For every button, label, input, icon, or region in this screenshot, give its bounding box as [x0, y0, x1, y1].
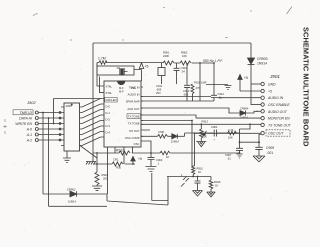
svg-text:D-1: D-1	[106, 111, 111, 115]
wire filter verticals	[200, 63, 214, 101]
svg-text:3K: 3K	[204, 135, 207, 139]
capacitor C909	[255, 135, 262, 157]
svg-text:XTAL: XTAL	[106, 85, 113, 89]
pin A-2	[35, 139, 61, 142]
wire bottom rail 2	[49, 205, 108, 207]
svg-text:R910 1MF: R910 1MF	[194, 81, 207, 85]
svg-text:1K: 1K	[215, 184, 218, 188]
wire outer left	[92, 43, 94, 162]
wire fan D2	[82, 110, 101, 119]
diode CR902	[70, 191, 77, 197]
svg-text:.04: .04	[181, 70, 185, 74]
svg-text:C902: C902	[156, 158, 163, 162]
IC U902	[64, 103, 80, 151]
svg-text:R901: R901	[163, 51, 170, 55]
wire right drop	[250, 43, 252, 105]
wire U902 pin8 down	[80, 146, 97, 159]
component Z910	[158, 63, 165, 84]
svg-text:DATA EN: DATA EN	[106, 98, 117, 102]
resistor R906	[112, 162, 123, 166]
svg-text:AUDIO OUT: AUDIO OUT	[267, 110, 288, 114]
svg-text:+5: +5	[244, 76, 248, 80]
ground G11	[236, 154, 242, 158]
svg-text:CR904: CR904	[240, 107, 249, 111]
pin GND	[251, 82, 264, 85]
svg-text:C911: C911	[156, 84, 163, 88]
svg-text:R915: R915	[214, 180, 221, 184]
svg-text:M-F: M-F	[119, 90, 124, 94]
svg-text:.01: .01	[227, 157, 231, 161]
U901 right pin stubs	[141, 87, 150, 136]
svg-text:.005: .005	[183, 93, 189, 97]
resistor R914b	[160, 151, 240, 155]
registration mark	[3, 119, 7, 134]
svg-text:TONE IN: TONE IN	[129, 85, 140, 89]
svg-text:C910: C910	[181, 66, 188, 70]
svg-text:GND: GND	[268, 83, 276, 87]
svg-text:TX TONE: TX TONE	[128, 122, 140, 126]
pin A-1	[35, 133, 61, 136]
wire fan D0	[82, 99, 101, 108]
svg-text:DATA HI: DATA HI	[19, 117, 32, 121]
capacitor C912	[211, 95, 217, 101]
svg-text:1N914: 1N914	[257, 62, 267, 66]
svg-text:1K: 1K	[198, 170, 201, 174]
svg-text:OSC OUT: OSC OUT	[268, 132, 284, 136]
pin MONITOR EN	[261, 116, 264, 119]
wire vertical bus right	[240, 124, 260, 153]
svg-text:TX TONE OUT: TX TONE OUT	[268, 123, 292, 127]
resistor R901	[163, 61, 174, 65]
pin A-0	[35, 128, 61, 131]
wire fan D7	[82, 137, 101, 146]
resistor R905	[141, 135, 172, 139]
wire filter top	[97, 62, 214, 65]
svg-text:+5: +5	[145, 65, 149, 69]
svg-text:D-2: D-2	[106, 117, 111, 121]
svg-text:TMB LD: TMB LD	[20, 111, 33, 115]
ground G2	[63, 158, 71, 163]
resistor R913a	[191, 84, 194, 101]
svg-text:25V: 25V	[156, 91, 161, 95]
U901 TX TONE box	[127, 114, 141, 119]
wire R904 drop	[96, 153, 98, 172]
svg-text:OSC: OSC	[134, 142, 140, 146]
wire R912 row	[93, 152, 160, 154]
node +5 bottom	[131, 157, 135, 165]
wire U902 gnd	[66, 151, 68, 158]
U901 top labels	[119, 86, 136, 94]
wire xtal top	[96, 63, 98, 67]
wire fan D4	[82, 121, 101, 130]
pin WRITE EN	[35, 122, 61, 125]
svg-text:R904: R904	[102, 173, 109, 177]
ground G3	[86, 162, 96, 165]
svg-text:CR1: CR1	[113, 158, 119, 162]
svg-text:CR902: CR902	[67, 188, 76, 192]
ground below C909	[253, 156, 265, 162]
connector J902	[26, 100, 36, 105]
svg-text:1N914: 1N914	[68, 200, 76, 204]
U902 left pins	[59, 107, 64, 146]
svg-text:+5: +5	[268, 90, 272, 94]
capacitor C904	[214, 130, 227, 137]
svg-text:J902: J902	[26, 100, 36, 105]
pin +5	[240, 89, 264, 92]
wire monitor en	[141, 115, 261, 118]
svg-text:47K: 47K	[196, 86, 201, 90]
svg-text:M-F: M-F	[119, 86, 124, 90]
wire chip to midvert	[141, 120, 192, 122]
smudge	[33, 8, 252, 41]
svg-text:AUDIO IN: AUDIO IN	[128, 92, 140, 96]
label R910	[194, 81, 207, 85]
resistor R903 1.7M	[99, 61, 107, 65]
wire fan D3	[82, 115, 101, 124]
wire gnd stub	[206, 84, 228, 86]
svg-text:1.7M: 1.7M	[98, 57, 106, 61]
svg-text:C904: C904	[211, 125, 218, 129]
svg-text:MONITOR EN: MONITOR EN	[268, 117, 290, 121]
svg-text:WRITE EN: WRITE EN	[15, 122, 32, 126]
connector J901	[269, 74, 280, 79]
svg-text:.001: .001	[267, 151, 274, 155]
pin TMB LD	[13, 110, 61, 115]
svg-text:C912: C912	[218, 92, 225, 96]
wire xtal2	[100, 77, 101, 93]
svg-text:5p: 5p	[219, 96, 222, 100]
svg-text:263: 263	[103, 177, 108, 181]
resistor R912	[119, 151, 130, 155]
svg-text:10K: 10K	[228, 136, 233, 140]
pin TX TONE OUT	[141, 123, 264, 126]
resistor R915	[209, 177, 213, 193]
pin AUDIO IN	[217, 96, 264, 99]
IC U901	[104, 81, 141, 147]
svg-text:4.7K: 4.7K	[228, 128, 234, 132]
svg-text:CR903: CR903	[257, 57, 268, 61]
svg-text:1N914: 1N914	[171, 139, 179, 143]
U901 right pin labels	[125, 85, 140, 146]
svg-text:220K: 220K	[163, 54, 169, 58]
U901 DATA EN box	[105, 97, 118, 102]
capacitor C908	[148, 153, 155, 167]
wire audio out	[141, 108, 240, 113]
svg-text:C907: C907	[225, 153, 232, 157]
capacitor C907	[236, 148, 243, 150]
U901 bottom pin stubs	[108, 147, 133, 194]
svg-text:J901: J901	[269, 74, 280, 79]
pin OSC OUT	[195, 130, 290, 136]
wire filter bus	[141, 100, 214, 102]
svg-text:R36: R36	[116, 166, 121, 170]
svg-text:+5: +5	[138, 157, 142, 161]
svg-text:R910: R910	[197, 167, 204, 171]
svg-text:SPKR AMP: SPKR AMP	[126, 100, 140, 104]
svg-text:4099: 4099	[66, 104, 72, 108]
svg-text:AUDIO IN: AUDIO IN	[267, 96, 284, 100]
svg-text:A-1: A-1	[26, 133, 32, 137]
svg-text:C913: C913	[183, 89, 190, 93]
svg-text:R902: R902	[181, 51, 188, 55]
ground G9	[196, 142, 206, 147]
corner tick	[287, 7, 293, 15]
pin OSC ENABLE	[251, 103, 264, 106]
wire xtal1	[97, 63, 101, 86]
resistor R904	[95, 172, 99, 186]
U901 left pin stubs	[101, 86, 105, 137]
capacitor C905	[181, 177, 189, 187]
capacitor C906	[195, 177, 201, 191]
svg-text:TX TONE: TX TONE	[128, 115, 140, 119]
diode CR903	[248, 58, 255, 65]
potentiometer R913	[200, 124, 207, 141]
capacitor C913	[184, 63, 190, 101]
resistor R910	[192, 166, 195, 175]
svg-text:OSC COMP: OSC COMP	[125, 136, 140, 140]
svg-text:1K: 1K	[166, 155, 169, 159]
wire R906 row	[93, 163, 135, 165]
label CR903	[257, 57, 268, 66]
svg-text:XTAL: XTAL	[106, 91, 113, 95]
node +5 right	[238, 75, 242, 92]
U902 right pins	[80, 107, 83, 146]
wire cluster bus	[167, 176, 211, 178]
svg-text:D-0: D-0	[106, 104, 111, 108]
resistor R914	[228, 131, 240, 135]
wire chip row to C908	[141, 141, 151, 153]
svg-text:10K: 10K	[182, 54, 187, 58]
pin DATA HI	[35, 117, 61, 120]
diode CR904	[240, 111, 258, 116]
svg-text:A-0: A-0	[26, 128, 32, 132]
wire cluster left drop	[152, 173, 168, 201]
wire bottom rail 1b	[77, 177, 169, 206]
svg-text:C909: C909	[266, 146, 274, 150]
svg-text:D-3: D-3	[106, 124, 111, 128]
svg-text:R912: R912	[116, 149, 124, 153]
crystal Y901	[97, 66, 134, 75]
wire fan D1	[82, 104, 101, 113]
svg-text:A-2: A-2	[26, 139, 32, 143]
diode CR905	[172, 133, 214, 139]
svg-text:AUD OUT: AUD OUT	[127, 107, 139, 111]
ground G7	[207, 192, 215, 197]
svg-text:470K: 470K	[158, 130, 164, 134]
wire bottom rail 1	[43, 193, 70, 195]
wire bus B	[48, 118, 50, 206]
wire mid verticals	[192, 121, 195, 177]
pin AUDIO OUT	[256, 110, 264, 113]
svg-text:.005: .005	[156, 88, 162, 92]
wire fan D5	[82, 126, 101, 135]
capacitor C910	[174, 63, 180, 84]
node +5 chip	[134, 63, 144, 81]
label LPF	[203, 59, 223, 63]
ground G1	[225, 86, 232, 90]
resistor R902	[180, 61, 191, 65]
ground G4	[92, 186, 102, 191]
svg-text:OSC ENABLE: OSC ENABLE	[268, 103, 290, 107]
svg-text:D-4: D-4	[106, 131, 111, 135]
wire bus A	[42, 113, 44, 195]
wire audio in long	[141, 96, 211, 98]
svg-text:SCHEMATIC MULTITONE BOARD: SCHEMATIC MULTITONE BOARD	[302, 27, 311, 147]
ground G6	[193, 191, 203, 197]
wire fan D6	[82, 132, 101, 141]
svg-text:MT OUT: MT OUT	[129, 129, 140, 133]
svg-text:R913: R913	[202, 120, 209, 124]
wire data en	[54, 99, 101, 124]
svg-text:1N914: 1N914	[240, 116, 248, 120]
wire outer top	[93, 42, 251, 44]
svg-text:500 Hz L.P.F.: 500 Hz L.P.F.	[203, 59, 223, 63]
ground G5	[146, 167, 157, 172]
U901 left pin labels	[106, 85, 117, 135]
